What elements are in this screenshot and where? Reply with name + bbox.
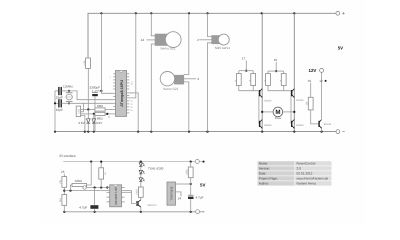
H-bridge + right side bbox=[235, 13, 332, 131]
svg-text:BD649: BD649 bbox=[324, 123, 332, 126]
svg-text:IC1: IC1 bbox=[131, 81, 134, 85]
IC U1 ATmega8-16PU bbox=[110, 13, 139, 131]
capacitor C5 4.7uF bbox=[188, 194, 194, 196]
svg-text:TSOP1838: TSOP1838 bbox=[169, 186, 173, 200]
svg-text:5V: 5V bbox=[338, 46, 343, 51]
svg-text:TSAL 6200: TSAL 6200 bbox=[148, 167, 164, 171]
svg-text:100Ω: 100Ω bbox=[136, 189, 139, 195]
zener D2 3.6V bbox=[93, 114, 95, 119]
wire 5V to IC VCC bbox=[101, 13, 113, 93]
svg-text:100Ω: 100Ω bbox=[186, 169, 189, 175]
resistor R7 1k bbox=[283, 71, 285, 73]
wire USB VBUS bbox=[81, 103, 84, 112]
LED D3 TSAL 6200 bbox=[140, 162, 142, 163]
zener D1 3.6V bbox=[87, 110, 89, 119]
svg-text:MC34017-8P: MC34017-8P bbox=[114, 187, 118, 205]
svg-text:ATmega8-16PU: ATmega8-16PU bbox=[120, 80, 124, 107]
resistor R10 bbox=[62, 195, 67, 206]
svg-text:12V: 12V bbox=[309, 68, 317, 73]
resistor R1 1.5k pull-up bbox=[87, 57, 89, 58]
transistor Q3 BD650 bbox=[292, 89, 295, 98]
svg-text:M: M bbox=[275, 109, 280, 116]
IC body bbox=[116, 71, 127, 117]
svg-text:Date:: Date: bbox=[259, 172, 267, 176]
svg-text:www.HomoFaciens.de: www.HomoFaciens.de bbox=[297, 177, 329, 181]
connector J1 5V rail end bbox=[336, 11, 340, 15]
transistor Q2 BD649 bbox=[260, 120, 263, 129]
svg-text:18: 18 bbox=[274, 58, 278, 62]
svg-text:17: 17 bbox=[242, 57, 246, 61]
transistor Q6 MPF910 bbox=[137, 200, 141, 207]
wire signal pin 3 bbox=[184, 78, 196, 80]
wire IC U2 out bbox=[125, 191, 132, 193]
resistor R12 100 bbox=[138, 187, 143, 197]
pins right bbox=[127, 74, 130, 113]
svg-text:2: 2 bbox=[197, 38, 199, 42]
wire bases left pair bbox=[239, 90, 259, 92]
IR interface section bbox=[59, 154, 205, 214]
wire 12V down bbox=[321, 72, 323, 118]
capacitor C4 4.7uF bbox=[94, 188, 96, 206]
servo M2 Servo S21 bbox=[160, 13, 199, 131]
svg-text:10kΩ: 10kΩ bbox=[75, 179, 83, 183]
transistor Q4 BD649 bbox=[292, 120, 295, 129]
wire 5V to servo M1 bbox=[151, 13, 155, 36]
wire 5V to servo M3 bbox=[208, 13, 212, 36]
transistor Q5 BD649 bbox=[319, 120, 322, 129]
svg-text:USB: USB bbox=[77, 108, 80, 113]
wire servo M2 to ground bbox=[184, 82, 189, 132]
wire AVCC from 5V rail bbox=[129, 13, 136, 98]
IC U3 TSOP1838 bbox=[167, 182, 176, 205]
svg-text:68Ω: 68Ω bbox=[97, 117, 103, 121]
svg-text:BD650: BD650 bbox=[264, 99, 272, 102]
wire right column bbox=[293, 13, 295, 131]
svg-text:2.0: 2.0 bbox=[297, 167, 302, 171]
wire D- / resistor R2 68 bbox=[81, 109, 95, 111]
svg-text:19: 19 bbox=[308, 79, 312, 83]
wire servo M3 to ground bbox=[208, 43, 212, 132]
wire divider node to MOSFET gate bbox=[64, 191, 136, 204]
wire R1 to D- node bbox=[87, 69, 89, 110]
svg-text:14: 14 bbox=[141, 38, 145, 42]
IC U2 MC34017-8P bbox=[107, 188, 125, 202]
svg-text:BD650: BD650 bbox=[296, 99, 304, 102]
pins left bbox=[113, 74, 115, 114]
servo M1 Servo S21 bbox=[141, 13, 182, 131]
svg-text:BD649: BD649 bbox=[264, 124, 272, 127]
svg-text:Mini servo: Mini servo bbox=[215, 46, 230, 50]
svg-text:5V: 5V bbox=[200, 183, 205, 188]
title block bbox=[258, 161, 332, 186]
svg-text:24: 24 bbox=[178, 197, 182, 201]
svg-text:15pF: 15pF bbox=[56, 108, 63, 112]
svg-text:IR interface: IR interface bbox=[60, 154, 77, 158]
connector ground rail end bbox=[336, 130, 340, 134]
resistor R4 1k bbox=[238, 71, 240, 74]
connector IR 5V bbox=[195, 160, 199, 164]
LED D4 bbox=[139, 170, 144, 174]
pin number labels bbox=[110, 76, 134, 112]
wire servo M1 to ground bbox=[151, 44, 155, 132]
LED D5 bbox=[139, 178, 144, 182]
resistor R5 1k bbox=[252, 71, 254, 74]
wire XTAL1 to IC bbox=[69, 91, 113, 100]
svg-text:BD649: BD649 bbox=[296, 124, 304, 127]
svg-text:1.5k: 1.5k bbox=[83, 60, 86, 65]
svg-text:15pF: 15pF bbox=[56, 96, 63, 100]
node dots on 5V rail bbox=[100, 12, 295, 14]
wire TSOP vcc bbox=[176, 183, 191, 185]
capacitor C1 15pF bbox=[55, 90, 59, 92]
node dots on ground rail bbox=[54, 131, 323, 133]
svg-text:MPF910: MPF910 bbox=[148, 204, 158, 207]
connector USB bbox=[76, 106, 80, 116]
connector IR input bbox=[83, 186, 86, 189]
resistor R8 10k bbox=[308, 97, 313, 110]
svg-text:Servo S21: Servo S21 bbox=[160, 46, 176, 50]
svg-text:Drive: Drive bbox=[275, 117, 282, 120]
wire XTAL2 to IC bbox=[69, 102, 113, 104]
resistor R13 100 bbox=[190, 161, 192, 163]
IR ground rail bbox=[64, 211, 204, 213]
ground bus for crystal caps bbox=[54, 91, 56, 132]
svg-text:Author:: Author: bbox=[259, 182, 269, 186]
wire TSOP out pin 24 bbox=[176, 192, 182, 196]
svg-text:Servo S21: Servo S21 bbox=[163, 87, 179, 91]
svg-text:Name:: Name: bbox=[259, 162, 269, 166]
wire D+ / resistor R3 68 bbox=[81, 113, 95, 115]
svg-text:4.7µF: 4.7µF bbox=[79, 205, 87, 209]
svg-text:RoverControl: RoverControl bbox=[297, 162, 316, 166]
servo M3 Mini servo bbox=[197, 13, 230, 131]
resistor R9 bbox=[62, 177, 67, 188]
svg-text:Version:: Version: bbox=[259, 167, 271, 171]
capacitor C2 15pF bbox=[55, 102, 59, 104]
svg-text:3: 3 bbox=[197, 77, 199, 81]
transistor Q1 BD650 bbox=[260, 89, 263, 98]
svg-text:25: 25 bbox=[61, 170, 65, 174]
svg-text:12MHz: 12MHz bbox=[63, 85, 73, 89]
svg-text:3.6V: 3.6V bbox=[78, 121, 85, 125]
wire left column bbox=[261, 13, 263, 131]
svg-text:Project Page:: Project Page: bbox=[259, 177, 278, 181]
resistor R11 10k pull-up bbox=[71, 185, 73, 191]
svg-text:Norbert Heinz: Norbert Heinz bbox=[297, 182, 317, 186]
connector IR GND bbox=[196, 210, 200, 214]
svg-text:2k2: 2k2 bbox=[59, 197, 62, 202]
motor M Drive bbox=[262, 111, 273, 113]
5V power rail bbox=[88, 13, 336, 57]
wire 5V to servo M2 bbox=[184, 13, 189, 74]
ground rail bbox=[55, 131, 336, 133]
svg-text:02.01.2012: 02.01.2012 bbox=[297, 172, 313, 176]
IR 5V rail bbox=[63, 161, 205, 163]
svg-text:3.6V: 3.6V bbox=[96, 121, 103, 125]
svg-text:4.7µF: 4.7µF bbox=[196, 195, 204, 199]
svg-text:12: 12 bbox=[319, 79, 323, 83]
resistor R14 bbox=[100, 162, 102, 168]
wire filtered node bbox=[86, 187, 107, 189]
wire IC GND to rail bbox=[129, 93, 138, 132]
resistor R6 1k bbox=[267, 71, 269, 73]
wire bases right pair bbox=[268, 90, 291, 92]
wire USB GND bbox=[81, 116, 85, 132]
